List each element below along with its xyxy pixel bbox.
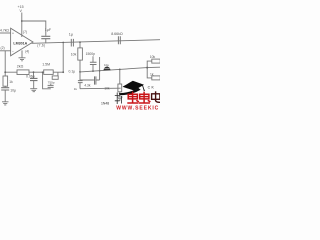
svg-text:CK: CK xyxy=(148,86,156,90)
svg-text:10μ: 10μ xyxy=(10,89,16,93)
output wire H1 xyxy=(32,40,161,44)
right top resistor box xyxy=(152,59,160,63)
input wire top xyxy=(0,32,11,34)
ground mid bars xyxy=(30,89,37,92)
svg-text:1k: 1k xyxy=(9,80,13,84)
watermark chong glyph 1 xyxy=(127,92,139,104)
svg-text:WWW.SEEKIC: WWW.SEEKIC xyxy=(116,106,159,110)
electrolytic cap blob xyxy=(103,67,110,71)
svg-text:(4): (4) xyxy=(25,50,29,54)
vertical x120 xyxy=(119,69,121,97)
R3 top lead xyxy=(4,72,6,87)
svg-text:4.7kΩ: 4.7kΩ xyxy=(0,28,9,32)
feedback riser left xyxy=(4,51,6,72)
parallel cap 750p loop left xyxy=(43,72,51,89)
series cap 8.66k bars on H1 xyxy=(118,36,120,44)
resistor R3 box vertical xyxy=(3,76,8,86)
branch right vertical xyxy=(57,72,59,76)
cap 750p plates xyxy=(48,85,54,87)
small box 750p branch xyxy=(52,76,58,79)
bottom feedback wire xyxy=(5,71,63,73)
resistor 10k box vertical x80 xyxy=(79,42,81,80)
ground pin4 bars xyxy=(19,58,26,61)
watermark chong glyph 2 xyxy=(139,92,151,104)
x80 lower lead xyxy=(79,83,81,89)
svg-text:0.06μ: 0.06μ xyxy=(26,74,35,78)
svg-text:LM301A: LM301A xyxy=(13,41,27,45)
right bottom branch xyxy=(147,68,152,78)
mid wire H2 xyxy=(80,67,160,72)
pin 4 ground stub xyxy=(21,50,23,57)
right top branch xyxy=(147,61,152,68)
ground bottom-left bars xyxy=(2,102,9,105)
cap 0.06u lead to ground xyxy=(33,81,35,89)
wire branch to comp cap xyxy=(22,21,46,36)
svg-text:750p: 750p xyxy=(48,80,55,84)
resistor box x120 xyxy=(118,84,122,92)
ground x120 bars xyxy=(117,97,123,100)
svg-text:(7): (7) xyxy=(23,30,27,34)
resistor R5 1.5M box on wire xyxy=(44,70,54,75)
svg-text:1500p: 1500p xyxy=(86,52,96,56)
svg-text:−: − xyxy=(12,49,14,53)
cap 10u lower lead xyxy=(4,90,6,101)
feedback riser to output wire xyxy=(62,43,64,72)
svg-text:10k: 10k xyxy=(104,86,110,90)
svg-text:4.3k: 4.3k xyxy=(84,83,90,87)
svg-text:2kΩ: 2kΩ xyxy=(17,65,24,69)
capacitor 0.06u plates xyxy=(30,78,38,80)
svg-text:10k: 10k xyxy=(71,53,77,57)
capacitor C1 lower lead xyxy=(45,39,47,43)
svg-text:10μ: 10μ xyxy=(104,63,109,67)
svg-text:1k: 1k xyxy=(150,72,154,76)
svg-text:1k: 1k xyxy=(74,87,78,91)
watermark logo cap xyxy=(119,81,145,95)
svg-text:0.1μ: 0.1μ xyxy=(69,69,76,73)
right bottom resistor box xyxy=(152,76,160,80)
svg-text:10k: 10k xyxy=(150,55,156,59)
cap 1500p plates xyxy=(90,62,97,64)
svg-text:1N48: 1N48 xyxy=(101,102,109,106)
junction dots xyxy=(4,20,148,73)
wire H3 xyxy=(80,87,121,90)
vertical x99.6 xyxy=(99,57,101,80)
+15V supply lead xyxy=(21,13,23,38)
input wire bottom xyxy=(0,50,11,52)
svg-text:1μ: 1μ xyxy=(69,33,73,37)
svg-text:8.66kΩ: 8.66kΩ xyxy=(111,32,123,36)
watermark dian glyph partial xyxy=(152,91,160,102)
svg-text:1.5M: 1.5M xyxy=(42,63,50,67)
op-amp U1 triangle xyxy=(11,28,33,56)
cap 1500p branch xyxy=(92,56,94,71)
svg-text:1μF: 1μF xyxy=(45,28,52,32)
resistor R4 box on wire xyxy=(17,70,29,75)
watermark small marks xyxy=(115,93,122,105)
cap plates on x80 xyxy=(78,81,83,83)
svg-text:(7,6): (7,6) xyxy=(37,43,45,47)
capacitor 10u plates xyxy=(1,88,9,90)
svg-text:(2): (2) xyxy=(1,46,5,50)
svg-text:+: + xyxy=(12,32,14,36)
cap 750p stub xyxy=(50,84,52,85)
branch 0.06u lead xyxy=(33,72,35,78)
series cap 1u bars xyxy=(71,39,73,47)
series cap H2b bars xyxy=(95,76,96,84)
capacitor C1 1uF plates xyxy=(41,36,50,38)
wire H2b xyxy=(80,79,100,81)
schematic text labels xyxy=(0,5,155,105)
